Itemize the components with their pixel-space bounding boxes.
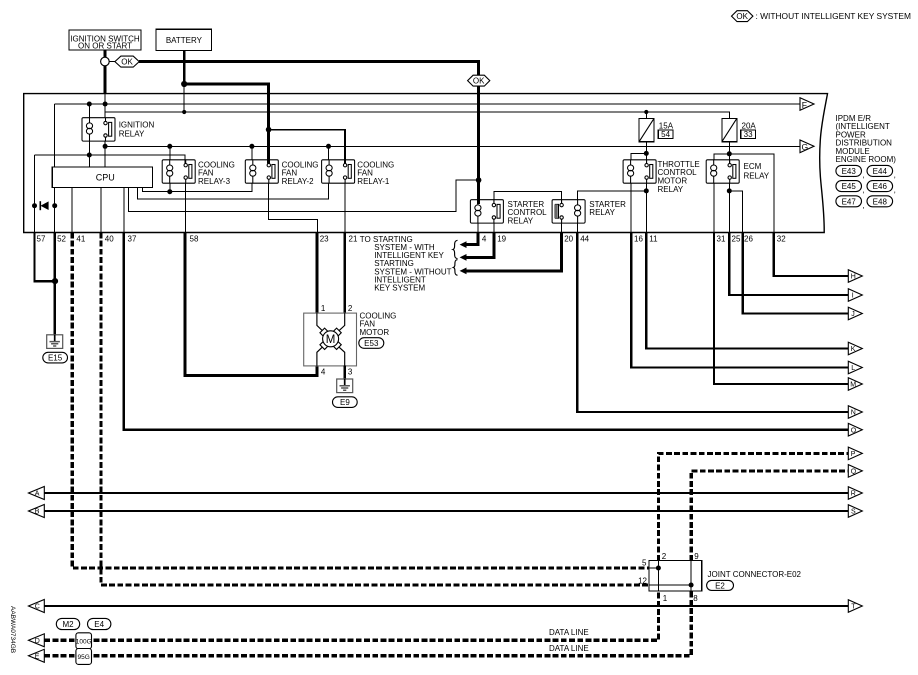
joint connector dashed riser to Q	[691, 471, 848, 561]
dashed data line D to joint connector pin 1	[44, 591, 658, 640]
wire CF2 coil pins	[251, 146, 253, 191]
svg-text:16: 16	[634, 234, 643, 243]
svg-text:E: E	[35, 654, 40, 661]
wire battery feed to cooling fan relays	[184, 84, 268, 164]
arrow K	[848, 342, 862, 355]
svg-text:N: N	[851, 410, 856, 417]
svg-text:AABWA0734GB: AABWA0734GB	[9, 606, 16, 653]
svg-text:C: C	[35, 604, 40, 611]
svg-text:M: M	[326, 334, 336, 346]
svg-text:DATA LINE: DATA LINE	[549, 644, 589, 653]
junction 15A output	[644, 151, 649, 156]
cooling fan relay-3	[162, 160, 195, 183]
junction battery	[181, 81, 187, 87]
svg-text:25: 25	[732, 234, 741, 243]
node circle	[101, 57, 110, 66]
junction ECM contact output	[727, 188, 732, 193]
connector M2 oval	[56, 618, 79, 629]
arrow J	[848, 307, 862, 320]
junction ignition relay contact top	[103, 102, 108, 107]
svg-text:57: 57	[37, 234, 46, 243]
wire battery down to fuse rail	[183, 84, 185, 112]
svg-text:21: 21	[349, 234, 358, 243]
arrow I	[848, 289, 862, 302]
svg-text:R: R	[851, 491, 856, 498]
throttle control motor relay	[623, 160, 656, 183]
wire pin 25 to I arrow	[729, 233, 848, 296]
junction starter control feed	[476, 177, 482, 183]
svg-text:RELAY-3: RELAY-3	[198, 177, 231, 186]
wire starter control contact to starter relay contact	[494, 191, 562, 203]
joint connector E02 box	[638, 552, 702, 603]
wire starter control contact bottom to pin 19	[493, 223, 495, 232]
ground E15	[47, 335, 63, 349]
wire pin 20 to starting system arrow 3	[466, 233, 562, 271]
fuse 20A	[722, 118, 737, 141]
svg-text:5: 5	[642, 559, 647, 568]
junction grounds	[52, 278, 58, 284]
arrow E	[29, 649, 45, 662]
svg-text:4: 4	[321, 368, 326, 377]
pin labels bottom edge	[37, 234, 787, 243]
wire rail to G arrow	[105, 145, 800, 147]
dashed data line E to joint connector pin 8	[44, 591, 691, 656]
starter relay (mirrored)	[552, 200, 585, 223]
wire pin 58 to motor pin 4	[185, 233, 317, 376]
arrow A	[29, 487, 45, 500]
wire CF1 contact bottom to pin 21	[344, 183, 346, 232]
svg-text:2: 2	[662, 552, 667, 561]
svg-text:4: 4	[482, 234, 487, 243]
junction cooling fan relay-1 coil top	[326, 144, 331, 149]
wire ignition switch to node circle	[103, 50, 106, 57]
wire CF1 coil pins	[328, 146, 330, 199]
svg-text:: WITHOUT INTELLIGENT KEY SYST: : WITHOUT INTELLIGENT KEY SYSTEM	[756, 11, 911, 21]
svg-text:1: 1	[663, 594, 668, 603]
svg-text:ECM: ECM	[744, 162, 762, 171]
arrow M	[848, 378, 862, 391]
brace lower	[453, 260, 457, 276]
svg-text:M: M	[850, 382, 856, 389]
CPU box	[52, 167, 152, 188]
wire pin 31 to M arrow	[714, 233, 848, 385]
wire pin 23 to motor pin 1	[315, 233, 318, 314]
wire CPU output to starter control junction	[129, 180, 479, 211]
wire CPU pin 41 down	[71, 188, 73, 233]
ECM relay	[706, 160, 739, 183]
wire corner down to CPU	[53, 104, 55, 167]
wire pin 11 to K arrow	[646, 233, 848, 349]
svg-text:RELAY: RELAY	[119, 130, 145, 139]
svg-text:J: J	[851, 311, 855, 318]
svg-text:19: 19	[497, 234, 506, 243]
svg-text:33: 33	[744, 130, 753, 139]
svg-text:41: 41	[76, 234, 85, 243]
svg-text:E44: E44	[873, 167, 888, 176]
arrow N	[848, 406, 862, 419]
svg-text:E2: E2	[715, 581, 725, 590]
svg-text:,: ,	[894, 171, 896, 180]
wire ECM relay coil bottom to pin 31	[713, 183, 715, 232]
arrow R	[848, 487, 862, 500]
wire starter relay contact bottom to pin 20	[561, 223, 563, 232]
wire node down into IPDM box	[103, 66, 106, 94]
svg-text:BATTERY: BATTERY	[166, 36, 203, 45]
wire pin 37 to O arrow	[124, 233, 848, 430]
wire pin 57 column	[34, 155, 36, 233]
wire branch to cooling fan relay-1 contact	[269, 130, 345, 164]
connector oval E43	[836, 165, 865, 179]
svg-text:40: 40	[105, 234, 114, 243]
wire pin 32 to H arrow	[774, 233, 849, 277]
fuse 15A	[639, 118, 654, 141]
svg-text:OK: OK	[736, 12, 748, 21]
diode	[32, 201, 57, 210]
wire ignition relay contact pins	[104, 104, 106, 167]
wire pin 16 to L arrow	[631, 233, 848, 368]
svg-text:20A: 20A	[742, 121, 757, 130]
svg-text:20: 20	[564, 234, 573, 243]
wire motor pin 3 to ground E9	[344, 366, 346, 380]
svg-text:E53: E53	[364, 339, 379, 348]
wire starter relay coil bottom to pin 44	[576, 223, 578, 232]
arrow H	[848, 270, 862, 283]
wire ECM contact to pin 26	[729, 191, 742, 233]
svg-text:E48: E48	[873, 197, 888, 206]
cooling fan motor	[304, 304, 357, 377]
svg-text:23: 23	[320, 234, 329, 243]
svg-text:O: O	[851, 427, 857, 434]
junction ignition relay coil top	[87, 102, 92, 107]
wire ECM relay contact bottom to pin 25	[728, 183, 730, 232]
connector oval E44	[867, 165, 896, 179]
svg-text:ENGINE ROOM): ENGINE ROOM)	[836, 155, 897, 164]
arrow Q	[848, 465, 862, 478]
wire node to OK hexagon	[109, 61, 115, 63]
joint connector dashed riser to P	[658, 453, 848, 560]
svg-text:54: 54	[661, 130, 670, 139]
svg-text:F: F	[802, 100, 807, 110]
svg-text:,: ,	[894, 186, 896, 195]
wire throttle relay contact bottom to pin 11	[645, 183, 647, 232]
wire pin 21 to motor pin 2	[343, 233, 346, 314]
wire CF3 coil pins	[169, 146, 171, 191]
svg-text:H: H	[851, 274, 856, 281]
svg-text:E15: E15	[48, 354, 63, 363]
svg-text:ON OR START: ON OR START	[78, 42, 132, 51]
svg-text:95G: 95G	[78, 654, 90, 661]
arrow L	[848, 361, 862, 374]
svg-text:IGNITION: IGNITION	[119, 121, 155, 130]
svg-text:3: 3	[348, 368, 353, 377]
arrow S	[848, 505, 862, 518]
junction rail at ignition contact	[103, 144, 108, 149]
connector oval E48	[867, 196, 893, 207]
svg-text:RELAY: RELAY	[589, 208, 615, 217]
svg-text:Q: Q	[851, 469, 857, 476]
svg-text:JOINT CONNECTOR-E02: JOINT CONNECTOR-E02	[708, 570, 802, 579]
wire throttle relay coil bottom to pin 16	[630, 183, 632, 232]
wire line to cooling fan relay-3 contact	[35, 155, 185, 165]
arrow O	[848, 423, 862, 436]
svg-text:M2: M2	[62, 620, 74, 629]
svg-text:OK: OK	[121, 57, 133, 66]
svg-text:11: 11	[649, 234, 658, 243]
wire 15A fuse bottom	[645, 142, 647, 166]
ignition switch box	[69, 30, 141, 51]
wire 20A to ECM relay coil	[714, 154, 729, 160]
svg-text:RELAY-1: RELAY-1	[357, 177, 390, 186]
junction battery on fuse rail	[182, 110, 186, 114]
junction throttle contact output	[644, 188, 649, 193]
ground E9	[337, 379, 353, 393]
svg-text:E46: E46	[873, 182, 888, 191]
wire pin 44 to N arrow	[577, 233, 848, 413]
wire CF2 contact bottom to pin 23	[269, 183, 318, 232]
svg-text:KEY SYSTEM: KEY SYSTEM	[374, 284, 425, 293]
svg-text:1: 1	[321, 304, 326, 313]
svg-text:9: 9	[694, 552, 699, 561]
wire CF3 contact bottom to pin 58	[185, 183, 187, 232]
svg-text:MOTOR: MOTOR	[360, 328, 390, 337]
connector oval E47	[836, 196, 865, 210]
wire CPU pin 52 down	[54, 188, 56, 233]
wire fuse feed rail	[105, 112, 729, 118]
svg-text:8: 8	[693, 594, 698, 603]
OK hexagon 1	[115, 56, 139, 67]
wire rail to F arrow	[54, 103, 800, 105]
wire pin 41 dashed down	[72, 233, 649, 569]
svg-text:T: T	[851, 604, 856, 611]
wire C to T line	[44, 605, 848, 607]
cooling fan relay-2	[245, 160, 278, 183]
wire throttle contact to starter relay coil	[577, 191, 646, 200]
arrow P	[848, 447, 862, 460]
svg-text:,: ,	[863, 201, 865, 210]
wire CPU pin 40 down	[100, 188, 102, 233]
wire ignition relay coil pins	[88, 104, 90, 167]
svg-text:P: P	[851, 451, 856, 458]
wire battery down	[183, 51, 186, 84]
G arrow	[800, 140, 814, 153]
battery box	[156, 29, 211, 50]
svg-text:I: I	[852, 293, 854, 300]
TO STARTING text block	[360, 235, 452, 293]
arrow D	[29, 634, 45, 647]
connector E4 oval	[88, 618, 111, 629]
ignition relay	[82, 118, 115, 141]
connector oval E46	[867, 181, 896, 195]
wire pin 57 to ground join	[35, 233, 56, 282]
brace upper	[453, 240, 458, 258]
svg-text:2: 2	[348, 304, 353, 313]
wire 20A to pin 32	[729, 154, 774, 233]
wire B to S line	[44, 510, 848, 512]
connector oval E45	[836, 181, 865, 195]
junction 15A fuse top	[644, 110, 648, 114]
svg-text:,: ,	[863, 186, 865, 195]
F arrow	[800, 98, 814, 111]
svg-text:E47: E47	[842, 197, 857, 206]
svg-text:100G: 100G	[76, 638, 92, 645]
svg-text:S: S	[851, 509, 856, 516]
wire pin 40 dashed down	[101, 233, 649, 586]
svg-text:,: ,	[863, 171, 865, 180]
svg-text:K: K	[851, 346, 856, 353]
junction cooling fan relay-3 coil top	[167, 144, 172, 149]
svg-text:D: D	[35, 638, 40, 645]
IPDM E/R box outline	[24, 94, 828, 233]
wire CPU output to cooling fan relay-1 coil	[137, 183, 328, 199]
svg-text:RELAY-2: RELAY-2	[282, 177, 315, 186]
svg-text:26: 26	[744, 234, 753, 243]
wire OK hexagon right then down to second OK	[139, 62, 478, 76]
wire pin 26 to J arrow	[743, 233, 849, 314]
wire pin 4 to starting system arrow 1	[466, 233, 478, 245]
arrow C	[29, 600, 45, 613]
svg-text:32: 32	[777, 234, 786, 243]
junction ignition coil bottom	[87, 153, 92, 158]
svg-text:OK: OK	[473, 77, 485, 86]
svg-text:52: 52	[57, 234, 66, 243]
svg-text:RELAY: RELAY	[658, 185, 684, 194]
svg-text:RELAY: RELAY	[508, 217, 534, 226]
svg-text:58: 58	[190, 234, 199, 243]
svg-text:E4: E4	[94, 620, 104, 629]
junction 20A output	[727, 151, 732, 156]
legend OK hexagon: WITHOUT INTELLIGENT KEY SYSTEM	[732, 11, 911, 22]
arrow T	[848, 600, 862, 613]
svg-text:RELAY: RELAY	[744, 171, 770, 180]
IPDM E/R label block	[836, 114, 897, 164]
svg-text:L: L	[851, 365, 855, 372]
wire starter control coil bottom to pin 4	[477, 223, 479, 232]
svg-text:DATA LINE: DATA LINE	[549, 628, 589, 637]
svg-text:B: B	[35, 509, 40, 516]
svg-text:44: 44	[580, 234, 589, 243]
OK hexagon 2	[468, 75, 490, 86]
svg-text:12: 12	[638, 576, 647, 585]
svg-text:15A: 15A	[659, 121, 674, 130]
cooling fan relay-1	[322, 160, 355, 183]
wire 15A fuse top pin	[645, 112, 647, 118]
arrow B	[29, 505, 45, 518]
svg-text:CPU: CPU	[96, 173, 115, 183]
svg-text:31: 31	[717, 234, 726, 243]
junction cooling fan relay-2 coil top	[249, 144, 254, 149]
wire pin 19 to starting system arrow 2	[466, 233, 494, 258]
wire OK2 down to starter control relay junction	[477, 86, 480, 204]
inline connector 100G/95G	[76, 633, 92, 665]
wire pin 52 to ground E15	[54, 233, 56, 335]
junction cooling fan relay-3 coil bottom	[167, 189, 172, 194]
wire 20A fuse bottom	[728, 142, 730, 166]
wire 15A to throttle relay coil	[631, 153, 646, 159]
svg-text:G: G	[802, 142, 809, 152]
svg-text:A: A	[35, 491, 40, 498]
wire A to R line	[44, 492, 848, 494]
svg-text:E43: E43	[842, 167, 857, 176]
wire CPU pin 37 down	[123, 188, 125, 233]
wire CPU output to cooling fan relay-3/2 coils	[143, 183, 252, 192]
svg-text:E9: E9	[340, 398, 350, 407]
svg-text:37: 37	[128, 234, 137, 243]
svg-text:E45: E45	[842, 182, 857, 191]
junction on battery branch	[266, 127, 272, 133]
starter control relay	[470, 200, 503, 223]
